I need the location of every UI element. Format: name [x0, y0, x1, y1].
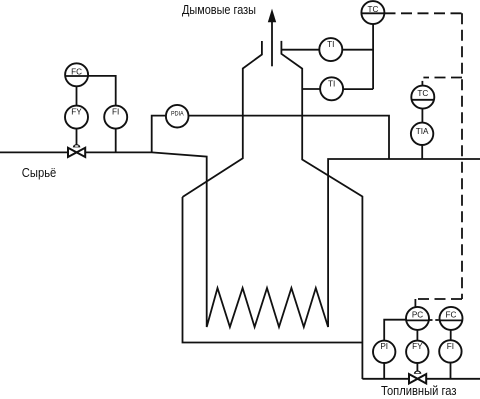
svg-text:Сырьё: Сырьё [22, 166, 57, 180]
svg-text:PI: PI [380, 342, 388, 351]
svg-text:FI: FI [112, 108, 119, 117]
svg-text:FC: FC [446, 311, 457, 320]
svg-text:TI: TI [327, 40, 334, 49]
svg-text:PC: PC [412, 311, 423, 320]
svg-text:FY: FY [412, 342, 423, 351]
svg-text:FC: FC [71, 68, 82, 77]
svg-text:TC: TC [367, 5, 378, 14]
svg-text:TI: TI [328, 79, 335, 88]
svg-text:PDIA: PDIA [171, 111, 184, 117]
svg-text:Топливный газ: Топливный газ [381, 384, 457, 398]
svg-text:TC: TC [417, 89, 428, 98]
svg-text:FI: FI [447, 342, 454, 351]
svg-text:Дымовые газы: Дымовые газы [182, 3, 256, 17]
svg-text:TIA: TIA [416, 127, 429, 136]
svg-text:FY: FY [71, 108, 82, 117]
